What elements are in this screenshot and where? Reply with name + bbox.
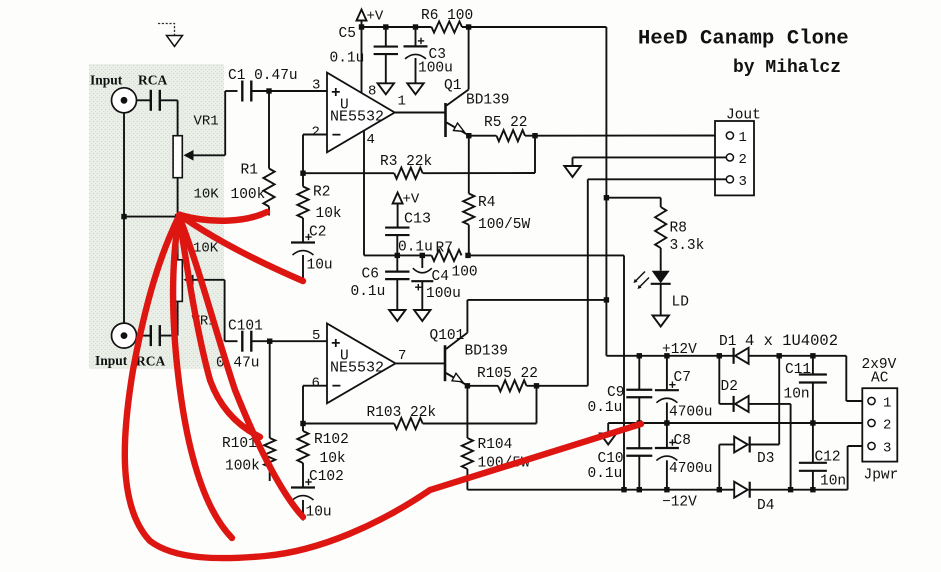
node rail corner <box>359 24 364 29</box>
svg-text:R103 22k: R103 22k <box>367 405 437 421</box>
ground C3 <box>407 83 423 94</box>
svg-text:NE5532: NE5532 <box>330 360 384 377</box>
svg-text:R8: R8 <box>670 221 687 237</box>
wire 0V bus <box>608 422 868 424</box>
ground C4 <box>414 310 430 321</box>
svg-text:3: 3 <box>312 78 320 94</box>
svg-text:1: 1 <box>398 94 406 110</box>
node -12V taps <box>621 487 626 492</box>
svg-text:D2: D2 <box>721 379 738 395</box>
wire out1 to Jout1 <box>535 135 726 137</box>
svg-text:7: 7 <box>398 348 406 364</box>
svg-text:C4: C4 <box>432 269 449 285</box>
wire D2 branch <box>718 356 720 404</box>
wire U1 pin2 <box>303 134 327 136</box>
svg-text:10u: 10u <box>307 258 333 274</box>
wire D3 anode <box>719 444 734 446</box>
svg-text:0.1u: 0.1u <box>330 51 365 67</box>
wire pot1 top <box>177 100 179 135</box>
red stroke to R101 <box>179 216 260 437</box>
diode D2 <box>732 396 734 412</box>
wire emitter to R5 <box>469 135 497 137</box>
svg-text:2: 2 <box>739 152 747 168</box>
node C11/C12 mid <box>810 420 815 425</box>
wire pin8 supply <box>361 27 363 94</box>
svg-text:R6 100: R6 100 <box>421 8 473 24</box>
svg-text:8: 8 <box>368 84 376 100</box>
red big loop <box>125 216 641 558</box>
svg-text:VR1: VR1 <box>194 114 219 130</box>
node C101/R101 junction <box>267 339 272 344</box>
svg-text:C10: C10 <box>598 451 624 467</box>
svg-text:D1: D1 <box>719 334 736 350</box>
ground C6 <box>389 310 405 321</box>
capacitor C13 <box>385 226 409 228</box>
svg-text:+V: +V <box>367 9 384 25</box>
node C1/R1 junction <box>266 88 271 93</box>
svg-text:HeeD Canamp Clone: HeeD Canamp Clone <box>638 28 849 51</box>
svg-text:C6: C6 <box>362 267 379 283</box>
RCA2 coupling cap <box>150 325 152 346</box>
wire C102 bottom (dangling) <box>302 500 304 521</box>
svg-text:R105 22: R105 22 <box>477 366 538 382</box>
ground 0V <box>600 434 616 445</box>
wire +12 raw vertical <box>605 27 607 356</box>
connector Jout <box>715 121 754 195</box>
node +12V taps <box>637 353 642 358</box>
svg-text:Input: Input <box>95 353 128 368</box>
capacitor C4 <box>421 255 423 268</box>
wire Jout2 to ground <box>573 156 727 158</box>
svg-text:10k: 10k <box>316 206 342 222</box>
RCA jack J2 <box>112 323 137 348</box>
svg-text:R102: R102 <box>314 432 349 448</box>
svg-text:10k: 10k <box>320 451 346 467</box>
wire RCA2 shield <box>123 217 125 323</box>
svg-text:4700u: 4700u <box>669 461 713 477</box>
svg-text:5: 5 <box>312 328 320 344</box>
wire 0V ground stem <box>607 423 609 434</box>
node vminus junctions <box>395 253 400 258</box>
capacitor C1 <box>241 81 243 102</box>
svg-text:R1: R1 <box>241 163 258 179</box>
svg-text:Q101: Q101 <box>430 328 465 344</box>
svg-text:10K: 10K <box>194 187 220 203</box>
capacitor C8 <box>666 423 668 448</box>
ground C5 <box>378 83 394 94</box>
VR1b wiper arrow <box>191 279 225 281</box>
wire R8 to LED <box>660 248 662 271</box>
node D4 wire taps <box>810 487 815 492</box>
capacitor C9 <box>638 356 640 390</box>
svg-text:0.1u: 0.1u <box>351 284 386 300</box>
svg-text:Q1: Q1 <box>444 78 461 94</box>
node Q1 emitter <box>466 133 471 138</box>
svg-text:NE5532: NE5532 <box>330 109 384 126</box>
wire -12V bus <box>467 489 734 491</box>
svg-text:100u: 100u <box>418 61 453 77</box>
diode D3 <box>734 437 748 453</box>
wire R8 horizontal <box>606 197 660 199</box>
capacitor C5 <box>385 27 387 46</box>
wire pot1 bottom <box>177 178 179 217</box>
Jpwr pin3 <box>868 442 875 449</box>
svg-text:0.1u: 0.1u <box>588 400 623 416</box>
wire R1 top <box>268 91 270 169</box>
svg-text:100k: 100k <box>231 187 266 203</box>
wire +V rail <box>362 26 432 28</box>
capacitor C10 <box>626 447 652 449</box>
diode D1 <box>732 348 734 364</box>
svg-text:RCA: RCA <box>138 73 167 88</box>
resistor R102 <box>302 424 304 432</box>
red stroke to C2 <box>180 215 303 281</box>
capacitor C12 <box>812 423 814 463</box>
resistor R6 <box>432 21 463 32</box>
wire R6 to +12V line <box>462 26 606 28</box>
svg-text:100: 100 <box>452 265 478 281</box>
wire wiper to C1 <box>224 91 226 155</box>
svg-text:100k: 100k <box>225 459 260 475</box>
Jpwr pin2 <box>868 419 875 426</box>
svg-text:10u: 10u <box>306 505 332 521</box>
svg-text:R3 22k: R3 22k <box>380 154 432 170</box>
RCA1 coupling cap <box>150 90 152 111</box>
red stroke to R1 <box>180 212 267 221</box>
node R8 tap <box>604 195 609 200</box>
node out2 <box>534 383 539 388</box>
svg-text:BD139: BD139 <box>465 344 509 360</box>
capacitor C2 <box>302 218 304 243</box>
capacitor C6 <box>396 255 398 271</box>
Jout pin2 <box>726 154 733 161</box>
svg-text:by Mihalcz: by Mihalcz <box>733 58 841 78</box>
transistor Q101 <box>444 345 447 381</box>
svg-text:R7: R7 <box>436 241 453 257</box>
node AC2 vertical <box>788 487 793 492</box>
svg-text:C5: C5 <box>339 26 356 42</box>
wire R104 bottom <box>466 469 468 490</box>
wire vminus bus <box>397 254 432 256</box>
capacitor C3 <box>415 27 417 46</box>
wire emitter2 to R105 <box>467 385 498 387</box>
node R2 top <box>300 171 305 176</box>
resistor R103 <box>394 418 423 429</box>
svg-text:4: 4 <box>367 132 375 148</box>
wire D4 to AC2 corner <box>750 489 848 491</box>
resistor R7 <box>432 250 462 261</box>
svg-text:C12: C12 <box>815 450 841 466</box>
wire wiper2 to C101 <box>224 280 226 341</box>
node R7/R4 junction <box>465 253 470 258</box>
svg-text:C102: C102 <box>309 469 344 485</box>
svg-text:R104: R104 <box>478 437 513 453</box>
resistor R1 <box>263 169 274 207</box>
op-amp U101 <box>327 324 396 404</box>
supply +V arrow (top) <box>357 10 367 21</box>
svg-text:C7: C7 <box>674 370 691 386</box>
Jout pin1 <box>726 132 733 139</box>
resistor R4 <box>463 194 474 225</box>
svg-text:RCA: RCA <box>136 354 165 369</box>
potentiometer VR1 (bottom) <box>173 260 182 302</box>
resistor R8 <box>660 198 662 207</box>
Jpwr pin1 <box>868 397 875 404</box>
svg-text:C11: C11 <box>785 362 811 378</box>
svg-text:10n: 10n <box>784 387 810 403</box>
wire R5 to out node <box>525 135 535 137</box>
wire RCA1 shield <box>123 113 125 216</box>
potentiometer VR1 (top) <box>173 136 182 178</box>
capacitor C101 <box>241 331 243 352</box>
svg-text:−12V: −12V <box>662 495 697 511</box>
wire D2 anode to AC2 <box>749 403 791 405</box>
svg-text:R2: R2 <box>313 185 330 201</box>
wire R104 top <box>466 386 468 438</box>
svg-text:R4: R4 <box>478 195 495 211</box>
VR1 wiper arrow <box>191 154 225 156</box>
capacitor C7 <box>666 356 668 390</box>
wire U101 pin6 <box>303 385 327 387</box>
svg-text:2: 2 <box>883 418 891 434</box>
red stroke to C102 <box>179 216 303 517</box>
wire feedback R3 line <box>303 172 394 174</box>
svg-text:R101: R101 <box>222 436 257 452</box>
svg-text:4 x 1U4002: 4 x 1U4002 <box>745 332 838 350</box>
svg-text:+V: +V <box>403 192 420 208</box>
wire R101 top <box>269 341 271 438</box>
resistor R2 <box>302 173 304 186</box>
node Q101 emitter <box>465 383 470 388</box>
selection highlight box <box>89 64 224 369</box>
wire LED to ground <box>660 284 662 316</box>
svg-text:6: 6 <box>312 376 320 392</box>
svg-text:3.3k: 3.3k <box>670 238 705 254</box>
capacitor C11 <box>812 356 814 375</box>
svg-text:0.1u: 0.1u <box>398 240 433 256</box>
wire R101 bottom (dangling) <box>269 467 271 481</box>
svg-text:C1 0.47u: C1 0.47u <box>228 68 298 84</box>
ground bus left <box>124 216 178 218</box>
RCA jack J1 <box>112 88 137 113</box>
svg-text:LD: LD <box>672 295 689 311</box>
svg-text:C13: C13 <box>404 211 431 228</box>
svg-text:C9: C9 <box>607 385 624 401</box>
wire C1 to opamp pin3 <box>251 90 327 92</box>
svg-text:Jout: Jout <box>726 108 761 124</box>
node C9/C10 mid <box>637 420 642 425</box>
wire Q1 collector <box>468 27 470 90</box>
node AC1 taps <box>777 353 782 358</box>
wire R105 to out2 <box>527 385 588 387</box>
svg-text:Jpwr: Jpwr <box>864 468 899 484</box>
svg-text:3: 3 <box>739 174 747 190</box>
wire D3 cathode to AC1 <box>750 444 780 446</box>
ground LED <box>653 316 669 327</box>
resistor R105 <box>498 380 527 391</box>
wire pot2 bottom <box>177 301 179 335</box>
wire out1 down <box>534 136 536 173</box>
svg-text:2: 2 <box>312 125 320 141</box>
wire +12V bus <box>606 355 733 357</box>
Jout pin3 <box>726 176 733 183</box>
svg-text:10K: 10K <box>193 241 219 257</box>
supply +V arrow (mid) <box>393 193 403 204</box>
wire R1 bottom (dangling) <box>268 207 270 216</box>
svg-text:−: − <box>332 127 342 145</box>
red stroke arm2 <box>173 216 232 538</box>
diode D4 <box>734 482 748 498</box>
svg-text:4700u: 4700u <box>669 405 713 421</box>
svg-text:1: 1 <box>739 130 747 146</box>
node out1 <box>532 133 537 138</box>
svg-text:−: − <box>332 378 342 396</box>
svg-text:C2: C2 <box>309 225 326 241</box>
wire U1 pin4 <box>363 131 365 256</box>
node collector to +12 <box>604 297 609 302</box>
LED LD <box>652 271 670 283</box>
node R102 top <box>300 421 305 426</box>
capacitor C102 <box>302 463 304 488</box>
wire Jout3 line <box>588 178 727 180</box>
wire pot2 top <box>177 217 179 260</box>
svg-text:C8: C8 <box>674 433 691 449</box>
svg-text:0.1u: 0.1u <box>588 466 623 482</box>
floating ground symbol <box>158 24 175 36</box>
svg-text:D3: D3 <box>757 451 774 467</box>
connector Jpwr <box>862 388 897 461</box>
svg-text:10n: 10n <box>820 474 846 490</box>
wire AC1 line <box>749 355 847 357</box>
node R6/Q1 collector <box>466 24 471 29</box>
svg-text:R5 22: R5 22 <box>484 115 528 131</box>
svg-text:Input: Input <box>90 73 123 88</box>
svg-text:D4: D4 <box>757 498 774 514</box>
svg-text:C101: C101 <box>228 319 263 335</box>
wire feedback R103 line <box>303 423 394 425</box>
svg-text:BD139: BD139 <box>466 93 510 109</box>
transistor Q1 <box>444 103 447 137</box>
node ground bus <box>121 214 126 219</box>
svg-text:3: 3 <box>883 441 891 457</box>
resistor R5 <box>497 130 526 141</box>
red annotation hub <box>176 212 185 221</box>
resistor R3 <box>394 168 423 179</box>
svg-text:100u: 100u <box>426 286 461 302</box>
node C7/C8 taps <box>664 420 669 425</box>
resistor R101 <box>264 438 275 467</box>
svg-text:AC: AC <box>871 371 889 387</box>
ground Jout2 <box>564 166 580 177</box>
wire vminus to -12V <box>468 254 624 256</box>
svg-text:1: 1 <box>883 396 891 412</box>
wire C101 to opamp pin5 <box>251 340 327 342</box>
svg-text:100/5W: 100/5W <box>478 217 531 233</box>
resistor R104 <box>462 438 473 469</box>
wire C2 bottom (dangling) <box>302 255 304 280</box>
wire Q101 collector <box>466 300 468 333</box>
wire C13 bottom <box>396 236 398 256</box>
wire R4 column <box>468 136 470 194</box>
op-amp U1 <box>327 73 395 153</box>
